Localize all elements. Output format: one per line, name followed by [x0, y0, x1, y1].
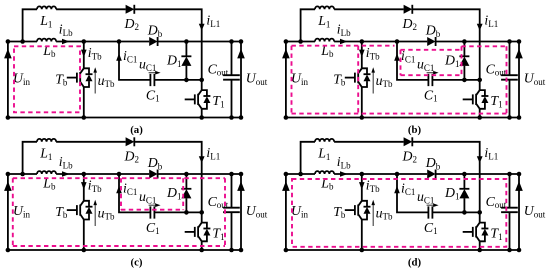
dashed current-loop path (b) — [292, 46, 507, 114]
arrow iC1 — [116, 53, 122, 61]
svg-text:Uout: Uout — [524, 203, 546, 219]
junction dots — [284, 172, 522, 253]
arrow Uin — [282, 49, 290, 59]
diode D1 — [463, 42, 465, 80]
svg-text:D2: D2 — [402, 16, 417, 32]
svg-text:uC1: uC1 — [139, 189, 156, 205]
inductor Lb — [37, 171, 56, 174]
wire rail Lb to Db — [334, 173, 427, 175]
wire L1 to D2 — [56, 141, 126, 143]
load Uout right rail — [518, 174, 520, 250]
transistor T1 gate lead — [463, 231, 473, 233]
capacitor Cout — [509, 174, 511, 250]
svg-text:L1: L1 — [317, 13, 330, 29]
diode D2 — [126, 5, 135, 14]
wire rail Db to right rail — [436, 173, 519, 175]
arrow iTb — [359, 50, 365, 58]
svg-text:Uin: Uin — [291, 203, 308, 219]
wire top branch with L1 — [23, 142, 37, 174]
svg-text:(d): (d) — [408, 257, 422, 269]
svg-text:uC1: uC1 — [417, 189, 434, 205]
transistor T1 gate lead — [185, 98, 195, 100]
wire T1 branch — [201, 212, 203, 250]
wire top branch with L1 — [301, 9, 315, 41]
transistor T1 body — [195, 90, 202, 109]
transistor T1 antiparallel diode — [202, 223, 207, 242]
arrow uC1 (gray) — [149, 204, 158, 206]
wire rail Lb to Db — [56, 173, 149, 175]
wire main rail left with Lb — [286, 173, 315, 175]
svg-text:uTb: uTb — [376, 205, 393, 221]
wire iC1 branch and C1 bottom wire — [397, 42, 480, 80]
transistor Tb gate lead — [67, 209, 77, 211]
svg-text:Uin: Uin — [13, 71, 30, 87]
transistor Tb body — [77, 201, 84, 220]
diode D2 — [126, 137, 135, 146]
wire bottom rail — [8, 249, 241, 251]
wire D2 to T1 branch corner — [412, 9, 479, 80]
arrow uTb (gray) — [372, 71, 374, 94]
svg-text:iLb: iLb — [59, 22, 73, 38]
arrow iC1 — [394, 53, 400, 61]
svg-text:D2: D2 — [402, 148, 417, 164]
svg-text:uC1: uC1 — [417, 57, 434, 73]
svg-text:Uin: Uin — [291, 71, 308, 87]
arrow iTb — [81, 50, 87, 58]
svg-text:C1: C1 — [146, 220, 160, 236]
wire D2 to T1 branch corner — [412, 142, 479, 213]
svg-text:iL1: iL1 — [484, 145, 498, 161]
source Uin left rail — [7, 42, 9, 118]
svg-text:iC1: iC1 — [123, 181, 137, 197]
svg-text:iL1: iL1 — [206, 13, 220, 29]
diode Db — [149, 37, 157, 46]
wire rail Lb to Db — [334, 41, 427, 43]
svg-text:Lb: Lb — [42, 43, 56, 59]
arrow uTb (gray) — [94, 71, 96, 94]
dashed current-loop path (a) — [14, 46, 80, 112]
arrow iC1 — [394, 186, 400, 194]
wire Tb branch — [83, 174, 85, 250]
transistor Tb body — [355, 201, 362, 220]
arrow iLb — [62, 39, 70, 44]
arrow Uin — [282, 181, 290, 191]
svg-text:Db: Db — [147, 155, 163, 171]
arrow iL1 — [199, 156, 205, 163]
arrow Uin — [4, 181, 12, 191]
arrow Uout — [515, 181, 523, 191]
svg-text:iTb: iTb — [88, 45, 102, 61]
svg-text:C1: C1 — [424, 87, 438, 103]
svg-text:Db: Db — [147, 23, 163, 39]
transistor Tb antiparallel diode — [84, 201, 89, 220]
svg-text:iC1: iC1 — [123, 48, 137, 64]
svg-text:uTb: uTb — [98, 205, 115, 221]
svg-text:T1: T1 — [490, 93, 502, 109]
inductor Lb — [315, 171, 334, 174]
arrow iL1 — [477, 156, 483, 163]
svg-text:uTb: uTb — [376, 73, 393, 89]
wire T1 branch — [201, 80, 203, 118]
junction dots — [6, 39, 244, 120]
wire L1 to D2 — [334, 8, 404, 10]
arrow uTb (gray) — [94, 203, 96, 226]
transistor Tb gate lead — [345, 209, 355, 211]
svg-text:iTb: iTb — [366, 45, 380, 61]
svg-text:D2: D2 — [124, 148, 139, 164]
wire rail Db to right rail — [158, 41, 241, 43]
svg-text:iLb: iLb — [337, 22, 351, 38]
wire T1 branch — [479, 80, 481, 118]
wire D2 to T1 branch corner — [134, 9, 201, 80]
wire top branch with L1 — [301, 142, 315, 174]
svg-text:L1: L1 — [39, 13, 52, 29]
capacitor Cout — [509, 42, 511, 118]
load Uout right rail — [240, 174, 242, 250]
capacitor C1 — [428, 206, 432, 218]
wire main rail left with Lb — [286, 41, 315, 43]
svg-text:Cout: Cout — [486, 194, 507, 210]
svg-text:Tb: Tb — [55, 204, 68, 220]
diode Db — [149, 170, 157, 179]
svg-text:uC1: uC1 — [139, 57, 156, 73]
arrow uC1 (gray) — [427, 204, 436, 206]
svg-text:T1: T1 — [490, 226, 502, 242]
arrow iLb — [340, 171, 348, 176]
svg-text:D1: D1 — [166, 185, 181, 201]
wire D2 to T1 branch corner — [134, 142, 201, 213]
svg-text:Lb: Lb — [320, 175, 334, 191]
load Uout right rail — [518, 42, 520, 118]
arrow Uout — [237, 49, 245, 59]
wire L1 to D2 — [56, 8, 126, 10]
wire iC1 branch and C1 bottom wire — [397, 174, 480, 212]
transistor T1 antiparallel diode — [480, 90, 485, 109]
inductor Lb — [315, 39, 334, 42]
diode D1 — [463, 174, 465, 212]
wire bottom rail — [286, 249, 519, 251]
svg-text:Uout: Uout — [246, 203, 268, 219]
svg-text:Uout: Uout — [246, 71, 268, 87]
wire L1 to D2 — [334, 141, 404, 143]
wire Tb branch — [361, 174, 363, 250]
arrow uC1 (gray) — [427, 72, 436, 74]
wire Tb branch — [361, 42, 363, 118]
load Uout right rail — [240, 42, 242, 118]
dashed current-loop path (d) — [292, 179, 506, 247]
wire bottom rail — [8, 117, 241, 119]
arrow Uin — [4, 49, 12, 59]
inductor L1 — [315, 6, 334, 9]
transistor Tb body — [77, 68, 84, 87]
wire main rail left with Lb — [8, 173, 37, 175]
diode Db — [427, 170, 435, 179]
wire T1 branch — [479, 212, 481, 250]
transistor Tb body — [355, 68, 362, 87]
wire iC1 branch and C1 bottom wire — [119, 174, 202, 212]
capacitor C1 — [150, 74, 154, 86]
svg-text:Tb: Tb — [333, 71, 346, 87]
svg-text:iLb: iLb — [337, 154, 351, 170]
arrow uTb (gray) — [372, 203, 374, 226]
inductor L1 — [37, 139, 56, 142]
svg-text:D2: D2 — [124, 16, 139, 32]
wire iC1 branch and C1 bottom wire — [119, 42, 202, 80]
svg-text:D1: D1 — [444, 53, 459, 69]
svg-text:(c): (c) — [131, 257, 143, 269]
transistor T1 gate lead — [185, 231, 195, 233]
capacitor Cout — [231, 42, 233, 118]
svg-text:iTb: iTb — [88, 178, 102, 194]
svg-text:Db: Db — [425, 23, 441, 39]
transistor Tb antiparallel diode — [362, 68, 367, 87]
wire rail Db to right rail — [436, 41, 519, 43]
transistor Tb gate lead — [67, 77, 77, 79]
capacitor C1 — [428, 74, 432, 86]
source Uin left rail — [7, 174, 9, 250]
diode Db — [427, 37, 435, 46]
inductor L1 — [37, 6, 56, 9]
arrow iC1 — [116, 186, 122, 194]
transistor T1 gate lead — [463, 98, 473, 100]
svg-text:Cout: Cout — [486, 61, 507, 77]
svg-text:D1: D1 — [166, 53, 181, 69]
svg-text:iC1: iC1 — [401, 181, 415, 197]
transistor T1 body — [473, 223, 480, 242]
svg-text:iL1: iL1 — [484, 13, 498, 29]
svg-text:T1: T1 — [212, 93, 224, 109]
svg-text:Tb: Tb — [333, 204, 346, 220]
arrow Uout — [237, 181, 245, 191]
svg-text:Tb: Tb — [55, 71, 68, 87]
svg-text:C1: C1 — [146, 87, 160, 103]
wire main rail left with Lb — [8, 41, 37, 43]
wire rail Lb to Db — [56, 41, 149, 43]
arrow iL1 — [477, 24, 483, 31]
junction dots — [6, 172, 244, 253]
transistor Tb antiparallel diode — [84, 68, 89, 87]
svg-text:L1: L1 — [317, 146, 330, 162]
transistor T1 body — [195, 223, 202, 242]
arrow iTb — [359, 182, 365, 190]
arrow iLb — [340, 39, 348, 44]
arrow iTb — [81, 182, 87, 190]
capacitor C1 — [150, 206, 154, 218]
svg-text:(b): (b) — [408, 124, 422, 136]
diode D2 — [404, 5, 413, 14]
svg-text:L1: L1 — [39, 146, 52, 162]
dashed current-loop path (c) — [13, 178, 225, 246]
wire top branch with L1 — [23, 9, 37, 41]
svg-text:Db: Db — [425, 155, 441, 171]
diode D1 — [185, 42, 187, 80]
wire rail Db to right rail — [158, 173, 241, 175]
arrow Uout — [515, 49, 523, 59]
svg-text:uTb: uTb — [98, 73, 115, 89]
arrow uC1 (gray) — [149, 72, 158, 74]
source Uin left rail — [285, 42, 287, 118]
arrow iL1 — [199, 24, 205, 31]
transistor Tb gate lead — [345, 77, 355, 79]
wire Tb branch — [83, 42, 85, 118]
transistor Tb antiparallel diode — [362, 201, 367, 220]
junction dots — [284, 39, 522, 120]
diode D2 — [404, 137, 413, 146]
svg-text:iL1: iL1 — [206, 145, 220, 161]
transistor T1 body — [473, 90, 480, 109]
source Uin left rail — [285, 174, 287, 250]
svg-text:(a): (a) — [130, 124, 143, 136]
svg-text:Uout: Uout — [524, 71, 546, 87]
capacitor Cout — [231, 174, 233, 250]
svg-text:Uin: Uin — [13, 203, 30, 219]
transistor T1 antiparallel diode — [480, 223, 485, 242]
svg-text:Cout: Cout — [208, 61, 229, 77]
svg-text:T1: T1 — [212, 226, 224, 242]
arrow iLb — [62, 171, 70, 176]
inductor Lb — [37, 39, 56, 42]
diode D1 — [185, 174, 187, 212]
inductor L1 — [315, 139, 334, 142]
svg-text:iLb: iLb — [59, 154, 73, 170]
svg-text:D1: D1 — [444, 185, 459, 201]
svg-text:C1: C1 — [424, 220, 438, 236]
transistor T1 antiparallel diode — [202, 90, 207, 109]
wire bottom rail — [286, 117, 519, 119]
